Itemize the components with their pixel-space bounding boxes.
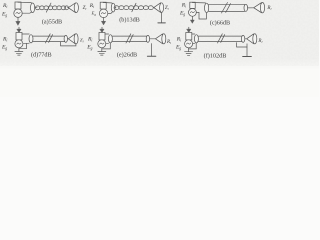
return wire (d) [61,42,76,46]
twisted line loops (b) [114,6,119,10]
input arrow (e) [101,27,103,29]
wire (c) [248,7,254,9]
resistor Ri (b) [100,2,106,9]
load cylinder (e) [162,34,166,44]
line end cylinder left (b) [111,3,115,12]
load cone (e) [155,34,162,44]
wire top (c) [192,2,206,3]
coax end flange left (f) [194,35,198,43]
coax end flange left (d) [29,35,33,43]
load cylinder (c) [260,3,264,13]
coax end ellipse right (c) [244,4,248,11]
wire (e) [150,38,156,40]
source G2 (b) [99,9,107,17]
wire top (f) [192,33,195,35]
load cylinder (f) [253,34,257,44]
coax end flange left (e) [108,35,112,43]
load cone (a) [68,3,75,12]
source G1 (a) [14,9,22,17]
wire (d) [67,38,70,40]
ground arrow (a) [17,17,19,21]
break slashes (c) [222,3,228,14]
return wire (f) [237,43,247,47]
break slashes (e) [126,34,131,43]
stand post (e) [151,44,153,56]
load cone (b) [154,3,161,12]
wire source to tube (e) [106,42,109,45]
source G5 (e) [98,40,106,48]
wire source to tube (d) [23,42,29,45]
scan noise overlay [0,0,1,1]
coax end ellipse right (e) [146,35,149,42]
coax end flange left (c) [205,3,209,12]
resistor Ri (d) [16,33,22,40]
ground arrow (b) [103,18,105,22]
wire (f) [245,38,246,40]
wire (b) [114,7,117,9]
stand post (b) [161,13,163,23]
load cylinder (a) [74,3,78,13]
source G6 (f) [185,40,193,48]
stand base (b) [158,22,165,24]
break slashes (f) [218,34,223,43]
wire (a) [66,7,69,9]
resistor Ri (f) [186,33,192,40]
coax end ellipse right (d) [64,35,67,42]
break slash (b) [132,3,136,12]
coax tube (e) [112,35,147,37]
wire source to line (b) [108,12,113,14]
ground (f) [188,48,190,52]
wire bracket (c) [196,12,206,19]
paper background [0,0,319,97]
coax end ellipse right (f) [241,35,244,42]
line end cylinder left (a) [30,3,34,13]
wire source to line (a) [22,12,31,13]
load cone (c) [254,3,262,13]
coax tube (d) [33,35,65,37]
wire source to tube (f) [193,42,195,45]
wire top (e) [105,33,109,35]
break slashes (d) [45,34,50,43]
resistor Ri (c) [190,2,195,8]
coax tube (c) [209,3,245,5]
stand post (f) [246,44,248,56]
wire top (a) [18,2,32,3]
wire bottom bracket (f) [189,43,197,49]
input arrow (f) [188,27,190,29]
wire top (d) [22,33,29,35]
ground arrow (c) [191,16,193,20]
ground (d) [18,48,20,52]
ground (e) [101,48,103,52]
break slash (a) [46,3,51,12]
load cone (d) [68,34,75,44]
stand base (f) [243,56,252,58]
twisted line loops (a) [35,6,40,10]
wire top (b) [103,2,112,3]
wire bottom bracket (d) [19,43,27,48]
load cylinder (b) [160,3,164,13]
load cone (f) [247,34,254,44]
resistor Ri (a) [15,2,21,9]
load cylinder (d) [74,34,78,44]
wire (a) [35,7,37,9]
wire bottom bracket (e) [102,43,111,49]
resistor Ri (e) [99,33,105,40]
source G4 (d) [15,40,23,48]
coax tube (f) [198,35,242,37]
input arrow (d) [18,27,20,29]
wire (b) [153,7,155,9]
stand base (e) [147,55,155,57]
source G3 (c) [189,9,197,17]
